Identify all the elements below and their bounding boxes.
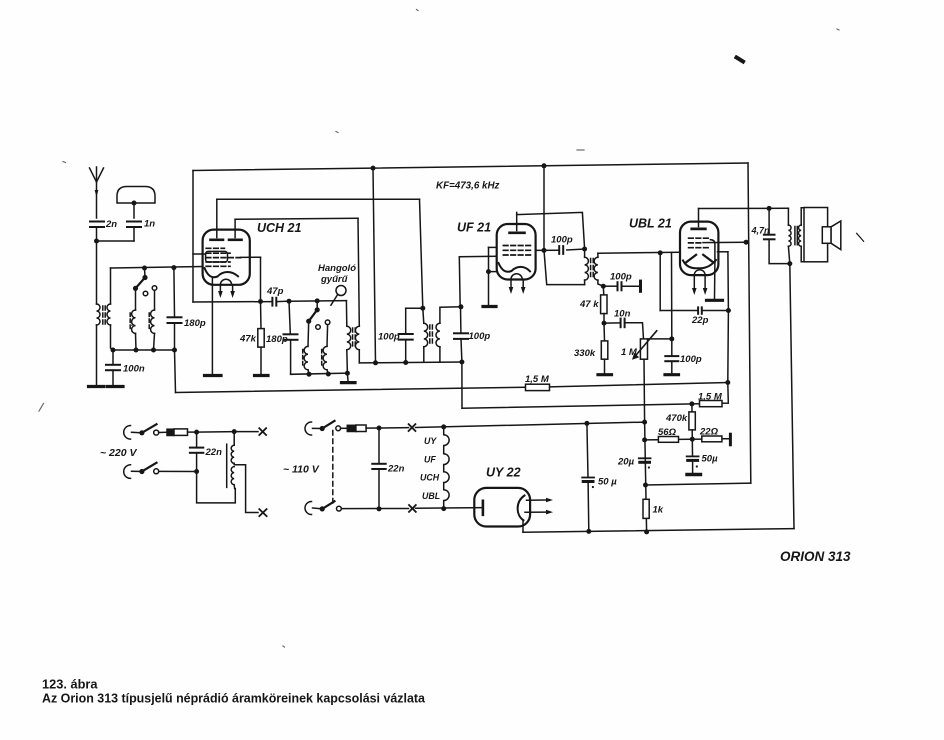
- capacitor 100p IF1 secondary: [454, 304, 490, 362]
- tube UF 21 envelope: [497, 224, 536, 280]
- svg-text:100p: 100p: [551, 235, 573, 246]
- ground: 100p AF: [665, 373, 679, 376]
- tube UY 22 envelope: [474, 488, 530, 527]
- switch: 110V top pole: [313, 421, 341, 431]
- label Hangolo gyuru: [318, 263, 356, 305]
- wire: IF bottom row y=363: [359, 360, 464, 366]
- wire: AVC row B with 1,5M: [462, 362, 728, 408]
- autotransformer ballast winding: [231, 432, 234, 489]
- capacitor 100p IF1: [378, 308, 423, 362]
- svg-text:UBL 21: UBL 21: [629, 217, 672, 231]
- wire: bottom return rail: [523, 529, 794, 534]
- svg-text:100p: 100p: [680, 354, 702, 365]
- antenna coil T1 primary: [97, 304, 101, 386]
- wire: 22p loop from grid row: [659, 253, 661, 311]
- capacitor 100p AF bypass: [665, 339, 702, 373]
- potentiometer 1M volume: [621, 331, 657, 360]
- svg-text:10n: 10n: [614, 309, 631, 320]
- tube UCH 21 envelope: [203, 230, 250, 285]
- autotransformer core: [226, 444, 228, 487]
- node: bus junction above UF 21: [542, 163, 547, 168]
- resistor 1,5M AVC: [526, 384, 550, 390]
- svg-text:100p: 100p: [378, 332, 400, 343]
- svg-text:20µ: 20µ: [617, 457, 635, 468]
- svg-text:470k: 470k: [665, 413, 688, 424]
- capacitor 1n: [127, 219, 155, 242]
- beam plate strokes UBL: [686, 255, 713, 262]
- wire: 220V top row: [194, 429, 258, 435]
- svg-text:22p: 22p: [691, 315, 709, 326]
- wire: AVC row A with 1,5M: [176, 374, 728, 393]
- svg-text:~ 110 V: ~ 110 V: [283, 464, 320, 476]
- node: output transformer bottom: [787, 261, 792, 266]
- capacitor 47p: [266, 286, 284, 306]
- resistor 330k: [574, 323, 608, 373]
- antenna: [90, 167, 104, 218]
- IF1 coil core: [430, 325, 433, 345]
- svg-text:UF 21: UF 21: [457, 221, 491, 235]
- internal anode box UBL: [710, 240, 715, 263]
- capacitor 50u reservoir: [582, 423, 617, 531]
- wire: 22p vertical to internal anode tap: [727, 252, 730, 311]
- wire: 1M bottom down to heater rail: [643, 359, 646, 422]
- wire: HT filter node vertical: [642, 420, 649, 535]
- resistor 470k: [665, 404, 695, 440]
- svg-text:Hangoló: Hangoló: [318, 263, 356, 274]
- wire: ballast tap to 110V X: [234, 465, 258, 513]
- wire: UF anode loop over tube: [517, 212, 585, 249]
- heater bump UBL: [694, 270, 705, 275]
- svg-text:2n: 2n: [105, 219, 117, 230]
- wire: UBL screen to B+: [703, 240, 749, 245]
- wire: bus vertical x=374 down to IF bottom row: [373, 168, 376, 363]
- scan specks: [39, 10, 839, 648]
- ground: 50u bias: [687, 473, 701, 476]
- IF2 coil primary: [585, 249, 589, 285]
- wire: bus vertical x=544 down to UF anode row: [543, 166, 545, 251]
- pin: UBL anode: [692, 209, 706, 229]
- capacitor 22n mains: [190, 432, 222, 471]
- svg-text:180p: 180p: [266, 334, 288, 345]
- filament electrode UY22: [482, 501, 485, 515]
- svg-text:330k: 330k: [574, 348, 596, 359]
- capacitor 100p IF2 primary: [551, 235, 573, 254]
- resistor 47k detector load: [579, 286, 607, 323]
- ground: 47k: [255, 374, 269, 377]
- svg-text:180p: 180p: [184, 318, 206, 329]
- svg-text:1,5 M: 1,5 M: [525, 374, 550, 385]
- capacitor 100n: [106, 350, 145, 386]
- ground: oscillator: [342, 373, 356, 382]
- wire: antenna caps junction: [94, 239, 134, 305]
- output transformer core: [795, 227, 797, 245]
- fuse 220V: [159, 429, 197, 436]
- wire: IF2 primary loop: [544, 250, 585, 284]
- plug: 110V bottom: [305, 502, 311, 515]
- svg-text:4,7n: 4,7n: [751, 226, 771, 236]
- wire: UF top grid stub: [489, 246, 497, 248]
- fuse 110V: [341, 425, 379, 432]
- svg-text:50µ: 50µ: [702, 454, 719, 465]
- cathode arc UY22: [518, 496, 525, 521]
- wire: UBL anode row to output transformer: [699, 206, 789, 211]
- tuning ring circle: [336, 286, 346, 296]
- grid ladder UF (dashed): [503, 246, 531, 256]
- X mark 110V bottom: [409, 505, 416, 512]
- scan scratch mark: [857, 233, 864, 241]
- antenna coil T1 secondary: [107, 268, 113, 350]
- capacitor 22p: [660, 307, 731, 326]
- svg-text:UF: UF: [424, 455, 436, 465]
- wire: 1M top to grid-leak node: [648, 336, 675, 341]
- wire: UY22 cathode stem to rail: [522, 520, 524, 532]
- counterpoise earth dome: [117, 187, 155, 219]
- cathode UCH: [205, 268, 239, 277]
- svg-text:50 µ: 50 µ: [598, 477, 617, 488]
- resistor 56 ohm: [658, 427, 679, 443]
- svg-text:1k: 1k: [653, 505, 664, 516]
- tube UBL 21 envelope: [680, 222, 718, 276]
- X mark 220V top: [259, 428, 266, 435]
- wire: B+ top bus: [193, 163, 748, 171]
- svg-text:gyűrű: gyűrű: [320, 274, 349, 285]
- resistor 1,5M second: [700, 401, 723, 407]
- output transformer primary: [788, 208, 791, 263]
- coil L1b: [149, 290, 154, 350]
- pin: UCH anode pin left: [211, 199, 224, 240]
- wire: UCH cathode stem to ground: [211, 278, 213, 375]
- svg-text:~ 220 V: ~ 220 V: [100, 447, 137, 459]
- output transformer secondary: [799, 208, 804, 262]
- capacitor 10n: [604, 309, 644, 339]
- wire: row E to B+: [646, 483, 751, 485]
- capacitor 180p tuning: [168, 268, 206, 350]
- wire: UF grid lead from IF1: [459, 256, 496, 308]
- svg-text:47 k: 47 k: [579, 299, 599, 310]
- wire: UF anode row: [536, 247, 588, 253]
- ground: 330k: [598, 373, 612, 376]
- switch S1 band selector: [133, 268, 157, 296]
- svg-text:UCH: UCH: [420, 473, 440, 483]
- svg-text:KF=473,6 kHz: KF=473,6 kHz: [436, 181, 500, 192]
- wire: left bus vertical down to UCH cathode row: [192, 171, 194, 303]
- plug: 110V top: [305, 422, 311, 435]
- svg-text:1 M: 1 M: [621, 347, 638, 358]
- wire: hexode grid branch from left bus: [193, 253, 206, 255]
- oscillator coil primary: [347, 326, 351, 373]
- anode arrow UY22 upper: [527, 498, 554, 503]
- grid ladder UCH (dashed): [206, 248, 240, 266]
- wire: 110V top row to heater rail: [377, 421, 645, 431]
- svg-text:1n: 1n: [144, 219, 155, 230]
- coil L2b: [322, 325, 329, 375]
- svg-text:56Ω: 56Ω: [658, 427, 677, 438]
- heater arrow UCH right: [230, 285, 235, 298]
- X mark 220V tap: [259, 509, 266, 516]
- wire: right B+ vertical down to electrolytic row: [748, 163, 751, 483]
- wire: screen row y=199: [217, 198, 420, 200]
- ground: UCH cathode: [205, 374, 222, 377]
- wire: 1M wiper line up to UBL grid: [671, 253, 673, 339]
- oscillator coil secondary: [355, 218, 359, 363]
- grid ladder UBL (dashed): [689, 238, 711, 248]
- heater arrow UBL left: [692, 275, 697, 295]
- antenna coil T1 core: [103, 306, 105, 324]
- heater arrow UF right: [521, 279, 526, 294]
- heater arrow UBL right: [703, 275, 708, 295]
- wire: 22p down to AVC row end: [725, 311, 730, 386]
- wire: 180p stem down to AVC row: [175, 350, 176, 393]
- wire: UBL cathode stem: [714, 262, 716, 298]
- svg-text:UBL: UBL: [422, 491, 440, 501]
- IF1 coil primary: [423, 308, 428, 362]
- svg-text:ORION 313: ORION 313: [780, 549, 851, 564]
- grid box UCH: [206, 251, 228, 262]
- resistor 47k: [239, 302, 264, 375]
- capacitor 2n: [90, 219, 117, 241]
- cathode UF: [499, 263, 531, 272]
- wire: osc grid row to coil: [289, 298, 347, 326]
- node: detector junction: [602, 321, 607, 326]
- switch: 110V bottom pole: [313, 501, 483, 511]
- svg-text:100p: 100p: [469, 331, 491, 342]
- heater arrow UF left: [509, 279, 514, 294]
- capacitor 180p osc padder: [266, 301, 298, 374]
- node: dome bottom: [132, 201, 137, 206]
- wire: cathode row y=350: [111, 348, 178, 353]
- wire: osc bottom row y=374: [291, 371, 350, 377]
- svg-text:123. ábra: 123. ábra: [42, 677, 98, 692]
- svg-text:22n: 22n: [205, 447, 223, 458]
- svg-text:47k: 47k: [239, 334, 257, 345]
- node: IF2 secondary bottom: [601, 284, 606, 289]
- IF2 coil secondary: [594, 253, 603, 286]
- IF1 coil secondary: [436, 307, 461, 362]
- switch S2 osc band: [306, 301, 330, 329]
- svg-text:UY: UY: [424, 436, 437, 446]
- terminal bar after 22 ohm: [729, 434, 732, 445]
- wire: speaker return vertical: [790, 264, 794, 529]
- switch link dashed: [332, 431, 334, 506]
- switch: 220V top pole: [132, 424, 159, 435]
- heater bump UCH: [220, 279, 231, 285]
- svg-text:47p: 47p: [266, 286, 284, 297]
- IF2 coil core: [591, 259, 594, 279]
- switch: 220V bottom pole: [132, 463, 200, 474]
- speaker: [804, 208, 841, 262]
- resistor 1k: [643, 499, 664, 518]
- svg-text:100p: 100p: [610, 272, 632, 283]
- wire: hexode signal grid out to 47p node: [241, 257, 261, 301]
- X mark 110V top: [409, 424, 416, 431]
- pin: UF anode: [510, 212, 525, 232]
- capacitor 50u bias: [687, 439, 718, 472]
- ground: antenna coil: [89, 385, 105, 388]
- heater arrow UCH left: [218, 285, 223, 298]
- coil L2a: [303, 321, 309, 374]
- capacitor 100p to terminal: [603, 272, 640, 292]
- svg-text:22Ω: 22Ω: [699, 427, 719, 438]
- pin: UCH triode anode pin: [229, 219, 242, 240]
- capacitor 20u: [617, 457, 651, 469]
- wire: triode anode row y=219: [235, 218, 358, 219]
- wire: 47p node row y=302: [193, 299, 292, 304]
- svg-text:100n: 100n: [123, 364, 145, 375]
- wire: 220V dropper loop: [197, 472, 236, 503]
- wire: UBL grid row: [598, 250, 680, 255]
- svg-text:UCH 21: UCH 21: [257, 221, 302, 235]
- wire: bias row D: [642, 437, 729, 443]
- wire: grid row y=268 into UCH: [111, 265, 203, 270]
- capacitor 4,7n tone: [751, 208, 790, 263]
- wire: screen feed down to IF1: [420, 199, 426, 311]
- svg-text:Az Orion 313 típusjelű néprádi: Az Orion 313 típusjelű néprádió áramköre…: [42, 692, 425, 706]
- scan speck: [737, 58, 744, 62]
- svg-text:UY 22: UY 22: [486, 466, 521, 480]
- ground: 100n: [108, 385, 124, 388]
- capacitor 22n 110V: [372, 428, 404, 509]
- resistor 22 ohm: [699, 427, 722, 442]
- coil L1a: [130, 288, 136, 350]
- heater chain coil: [444, 427, 449, 509]
- ground: UF cathode: [483, 305, 496, 308]
- svg-text:22n: 22n: [387, 464, 405, 475]
- oscillator coil core: [353, 328, 356, 348]
- plug: 220V top: [124, 426, 131, 440]
- ground: UBL cathode: [707, 299, 723, 302]
- node: bus junction above oscillator: [371, 166, 376, 171]
- plug: 220V bottom: [124, 465, 131, 479]
- cathode UBL: [683, 260, 716, 268]
- wire: UF cathode vertical to ground: [486, 247, 497, 305]
- heater bump UF: [511, 274, 522, 280]
- anode arrow UY22 lower: [525, 510, 553, 515]
